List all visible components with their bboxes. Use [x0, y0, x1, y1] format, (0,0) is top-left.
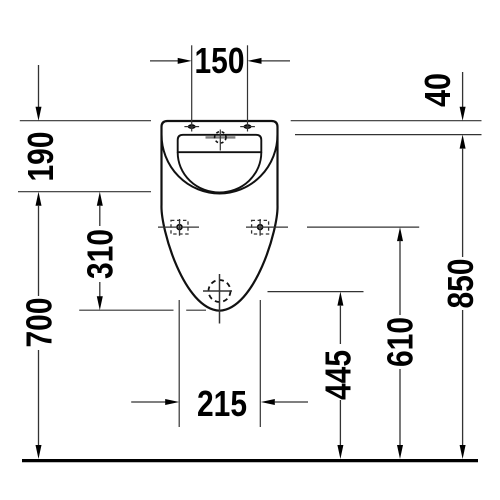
drain dashed circle [209, 280, 231, 302]
svg-text:700: 700 [19, 298, 60, 348]
bottom fixing hole left dashed square [171, 220, 188, 234]
reference line 850 level right [295, 134, 482, 136]
extension line 215 left [178, 300, 180, 427]
reference line top of urinal right [291, 120, 482, 122]
dim 610 bottom arrow [399, 369, 401, 446]
reference line 445 level [268, 291, 364, 293]
dim 310 bottom arrow [99, 282, 101, 297]
dim 445 top arrow [337, 292, 343, 306]
dim 310 top arrow [97, 192, 103, 206]
water inlet center line vertical [219, 130, 221, 151]
dim 190 top arrow [38, 65, 40, 108]
inner basin arc [178, 153, 262, 193]
svg-text:310: 310 [79, 229, 120, 279]
outer bowl arc [162, 135, 278, 194]
urinal outer outline (front view) [161, 121, 277, 311]
svg-text:40: 40 [417, 73, 458, 107]
dim 215 right arrow [261, 399, 275, 405]
svg-text:610: 610 [380, 317, 421, 367]
dim 850 bottom arrow [462, 310, 464, 446]
extension line 150 left [191, 45, 193, 131]
reference line 610 level [307, 226, 419, 228]
svg-text:445: 445 [318, 350, 359, 400]
svg-text:850: 850 [440, 259, 481, 309]
dim 610 top arrow [397, 227, 403, 241]
bottom fixing hole right dot [258, 225, 263, 230]
water inlet dashed circle [215, 132, 226, 143]
fixing oval right [244, 124, 252, 129]
bottom fixing hole right dashed square [252, 220, 269, 234]
dim 700 top arrow (up, below 700-level line) [36, 192, 42, 206]
reference line 310 level [79, 309, 173, 311]
fixing oval left cross line [184, 126, 199, 128]
dim 445 bottom arrow [339, 400, 341, 446]
bottom fixing hole right cross [246, 226, 288, 228]
waterline [178, 151, 262, 153]
bottom fixing hole left dot [177, 225, 182, 230]
extension line 150 right [247, 45, 249, 131]
svg-text:215: 215 [197, 383, 247, 424]
svg-text:190: 190 [20, 132, 61, 182]
rim rounded top [178, 135, 262, 153]
dim 700 bottom arrow [38, 350, 40, 446]
drain cross horizontal [203, 290, 232, 292]
dim 150 left arrow [150, 60, 179, 62]
dim 150 right arrow [261, 60, 291, 62]
fixing oval left [188, 124, 196, 129]
dim 215 left arrow [131, 401, 166, 403]
water inlet bar (gray) [206, 136, 236, 138]
floor line [22, 459, 478, 462]
dim 40 arrow (down, above top line) [462, 72, 464, 108]
drain cross vertical [219, 274, 221, 324]
fixing oval right cross line [240, 126, 255, 128]
bottom fixing hole left cross [158, 226, 199, 228]
extension line 215 right [259, 300, 261, 427]
reference line top of urinal left [20, 120, 151, 122]
dim 850 top arrow [460, 135, 466, 149]
svg-text:150: 150 [195, 40, 245, 81]
reference line 700 level left [18, 191, 151, 193]
